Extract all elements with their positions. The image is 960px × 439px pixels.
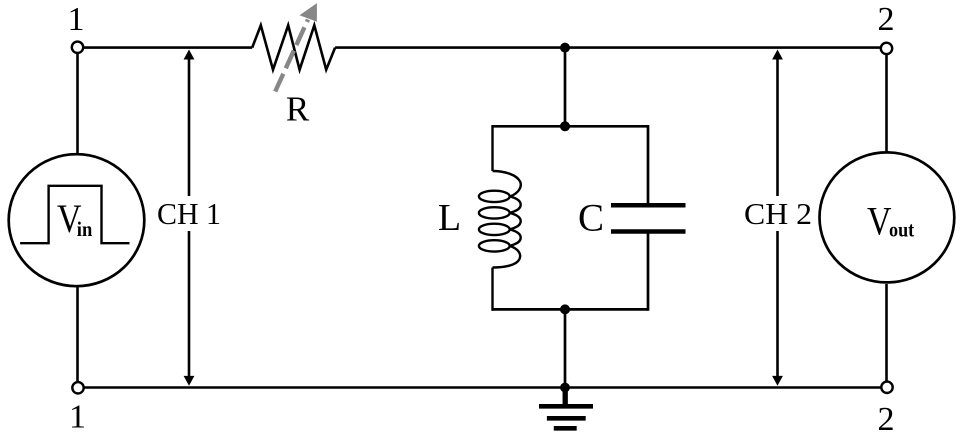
CH 2 arrowhead down xyxy=(772,376,783,386)
wire source Vout bottom to node 2 xyxy=(885,284,888,383)
junction dot top wire xyxy=(560,43,570,53)
capacitor plate bottom xyxy=(611,229,686,234)
svg-text:1: 1 xyxy=(68,1,85,38)
capacitor lead bottom xyxy=(647,234,650,311)
svg-text:2: 2 xyxy=(878,401,895,434)
node 1 top-left (open terminal) xyxy=(72,42,83,53)
junction dot ground xyxy=(560,383,570,393)
node 2 bottom-right (open terminal) xyxy=(881,382,892,393)
capacitor plate top xyxy=(611,203,686,208)
variable resistor arrowhead xyxy=(300,3,317,22)
svg-text:out: out xyxy=(889,218,914,242)
bottom wire xyxy=(83,386,881,389)
svg-text:R: R xyxy=(286,90,310,129)
source Vin circle xyxy=(9,154,145,286)
CH 1 arrow shaft xyxy=(188,57,191,377)
CH 2 arrow shaft xyxy=(776,58,779,377)
CH 1 arrowhead up xyxy=(184,50,195,60)
svg-text:C: C xyxy=(578,197,604,240)
CH 2 arrowhead up xyxy=(772,50,783,60)
wire source Vin bottom to node 1 xyxy=(76,288,79,384)
node 1 bottom-left (open terminal) xyxy=(72,382,83,393)
svg-text:2: 2 xyxy=(878,1,895,38)
wire top-left (node 1 to resistor) xyxy=(83,46,252,49)
junction dot tank bottom xyxy=(560,304,570,314)
svg-text:L: L xyxy=(438,197,461,239)
resistor R (zigzag body) xyxy=(252,25,335,69)
svg-text:1: 1 xyxy=(69,399,86,435)
tank box top wire xyxy=(493,125,649,128)
wire node2 to source Vout top xyxy=(885,53,888,151)
label CH 1 xyxy=(152,196,226,231)
inductor lead top xyxy=(491,125,493,171)
ground bar 2 xyxy=(547,416,586,421)
CH 2 measurement arrow xyxy=(741,50,814,386)
label CH 2 xyxy=(741,196,814,231)
pulse waveform inside Vin xyxy=(20,186,129,243)
svg-text:in: in xyxy=(77,217,93,241)
tank box bottom wire xyxy=(493,308,649,311)
inductor L (left branch) xyxy=(479,125,521,311)
ground xyxy=(539,388,593,429)
junction dot tank top xyxy=(560,121,570,131)
capacitor C (right branch) xyxy=(647,125,650,204)
svg-text:V: V xyxy=(867,199,892,244)
variable resistor arrow (gray dashed shaft) xyxy=(275,20,308,92)
inductor coil loops xyxy=(493,171,521,196)
svg-text:CH 2: CH 2 xyxy=(744,197,812,231)
wire node1 to source Vin top xyxy=(76,52,79,153)
source Vout circle xyxy=(820,152,955,282)
CH 1 arrowhead down xyxy=(184,376,195,386)
wire top-right (resistor to node 2) xyxy=(335,46,881,49)
inductor lead bottom xyxy=(491,268,493,311)
node 2 top-right (open terminal) xyxy=(881,43,892,54)
svg-text:CH 1: CH 1 xyxy=(157,197,221,231)
wire top junction to tank top xyxy=(564,48,567,127)
ground bar 1 xyxy=(539,404,593,409)
wire tank bottom to ground node xyxy=(564,309,567,387)
ground stub xyxy=(563,388,568,407)
ground bar 3 xyxy=(554,426,577,431)
CH 1 measurement arrow xyxy=(152,50,226,386)
